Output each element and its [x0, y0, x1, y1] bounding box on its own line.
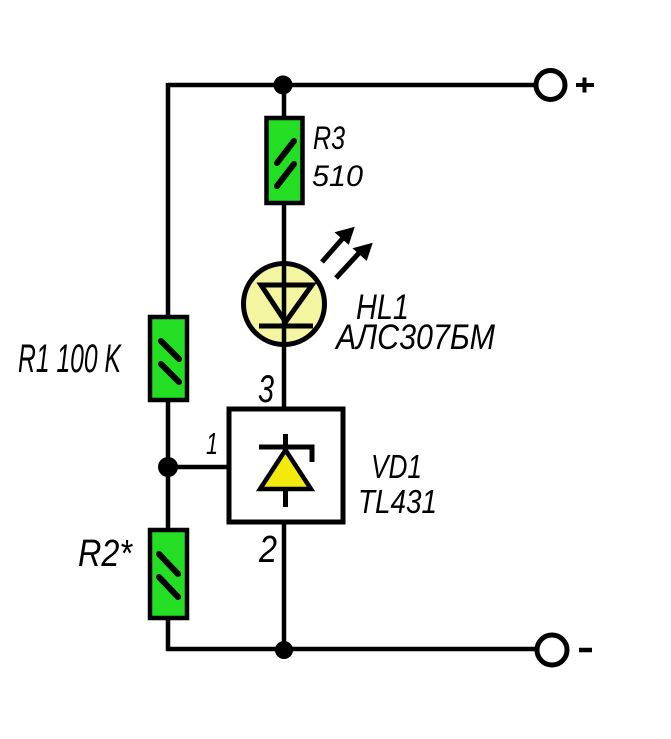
op-amp box VD1 TL431 outline: [229, 409, 343, 522]
svg-text:510: 510: [312, 160, 363, 193]
resistor R2 slash marks: [159, 554, 178, 597]
svg-text:3: 3: [258, 368, 274, 411]
terminal: - output circle: [537, 635, 567, 665]
LED HL1 light arrow 1: [322, 228, 354, 263]
svg-text:R3: R3: [313, 120, 345, 156]
resistor R1 slash marks: [161, 341, 179, 382]
wire: bottom rail from left branch corner to - terminal: [166, 647, 536, 652]
junction node: bottom rail / VD1 pin 2: [275, 641, 293, 659]
LED HL1 light arrow 2: [336, 244, 372, 279]
VD1 cathode bar with right hook: [259, 447, 312, 462]
wire: main vertical from VD1 pin 2 to bottom rail: [282, 522, 287, 651]
LED HL1 body circle: [244, 264, 325, 345]
svg-text:VD1: VD1: [371, 448, 422, 485]
junction node: top rail / R3: [274, 76, 293, 95]
VD1 shunt reference triangle: [260, 450, 311, 489]
wire: main vertical from top rail through R3 and HL1 to VD1 pin 3: [282, 83, 287, 408]
svg-text:1: 1: [206, 426, 218, 461]
LED HL1 diode triangle symbol: [261, 285, 312, 322]
svg-text:TL431: TL431: [358, 483, 437, 520]
LED HL1 cathode bar: [259, 324, 313, 329]
resistor R3 slash marks: [277, 141, 294, 186]
terminal: + sign: [576, 78, 594, 93]
wire: left vertical branch (through R1 and R2): [166, 83, 171, 651]
svg-text:2: 2: [258, 529, 277, 571]
svg-text:АЛС307БМ: АЛС307БМ: [334, 318, 495, 357]
VD1 internal vertical lead: [283, 434, 288, 507]
wire: top rail from left branch corner to + terminal: [168, 83, 536, 88]
terminal: + output circle: [536, 71, 565, 100]
resistor R3 body: [267, 118, 303, 203]
resistor R1 body: [150, 317, 187, 400]
svg-text:R1 100 K: R1 100 K: [18, 337, 122, 381]
terminal: - sign: [579, 648, 592, 653]
svg-text:R2*: R2*: [78, 533, 133, 575]
resistor R2 body: [150, 530, 187, 618]
wire: VD1 pin 1 from left branch junction to box: [166, 465, 231, 470]
junction node: left branch / VD1 pin 1: [158, 457, 178, 477]
